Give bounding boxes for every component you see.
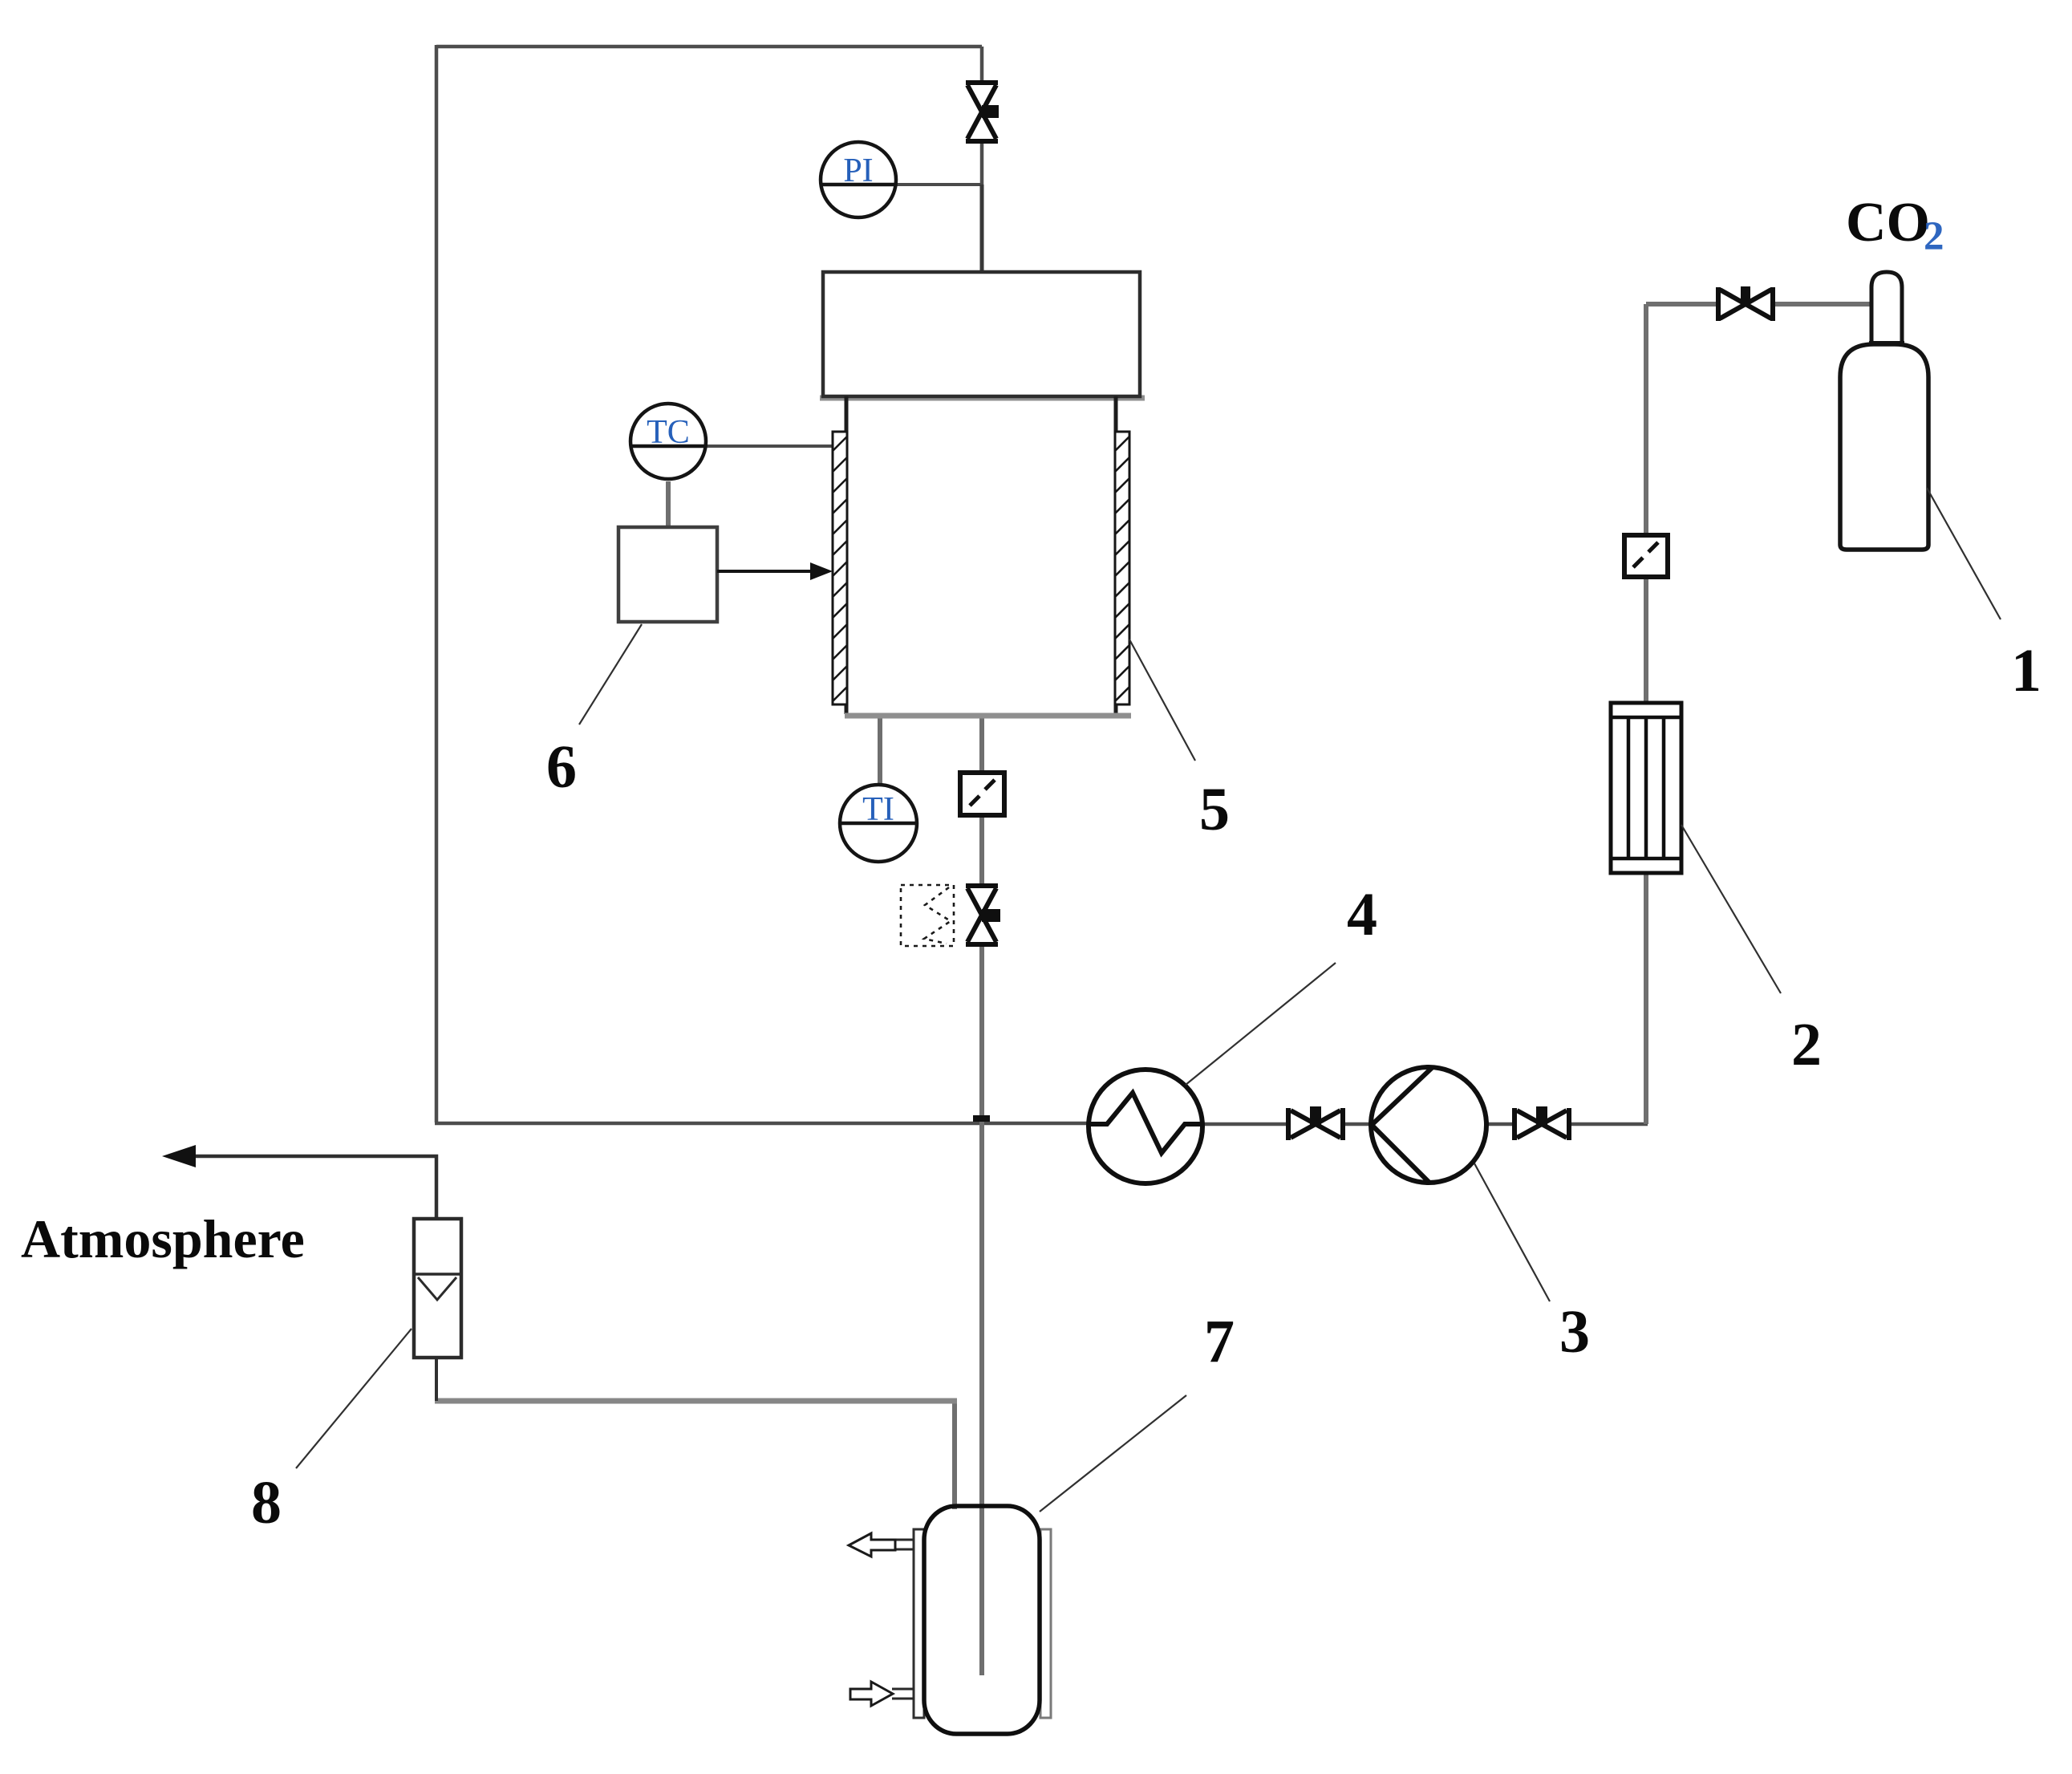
svg-text:PI: PI xyxy=(843,152,873,189)
svg-text:TC: TC xyxy=(647,414,690,451)
svg-text:TI: TI xyxy=(862,791,894,828)
svg-text:CO: CO xyxy=(1846,192,1930,254)
svg-text:1: 1 xyxy=(2011,637,2042,704)
svg-text:4: 4 xyxy=(1347,881,1377,948)
svg-text:3: 3 xyxy=(1559,1298,1590,1366)
svg-text:6: 6 xyxy=(546,733,577,801)
svg-text:Atmosphere: Atmosphere xyxy=(21,1208,305,1269)
svg-text:5: 5 xyxy=(1199,776,1230,843)
svg-text:8: 8 xyxy=(251,1469,282,1537)
svg-text:2: 2 xyxy=(1791,1011,1822,1078)
svg-text:2: 2 xyxy=(1924,214,1944,259)
svg-text:7: 7 xyxy=(1204,1308,1235,1375)
